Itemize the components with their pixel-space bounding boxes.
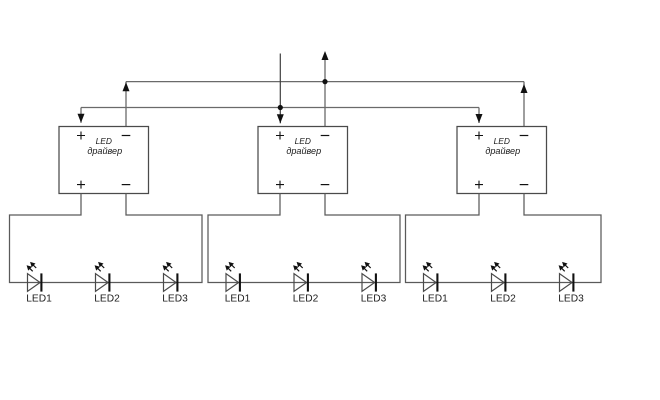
wire: positive bus drop into driver 1 "+" (arrow down): [78, 108, 85, 123]
LED3 of string 1: [163, 262, 178, 292]
driver 1 pin + (bottom output): [77, 181, 85, 189]
LED2 of string 3: [491, 262, 506, 292]
wire: driver 3 "-" riser to negative bus (arrow up): [521, 82, 528, 127]
driver 3 pin + (top input): [475, 132, 483, 140]
svg-text:LED1: LED1: [26, 294, 52, 305]
wire: +V feed from power source down to driver 2 "+" (arrow down): [277, 54, 284, 124]
LED driver module 3 (box): [457, 127, 547, 194]
driver 1 pin - (bottom output): [122, 184, 131, 186]
driver 3 pin + (bottom output): [475, 181, 483, 189]
wire: LED string 1 loop (driver 1 output to series LEDs): [10, 194, 203, 283]
junction: +V feed on positive bus: [278, 105, 283, 110]
driver 2 pin - (bottom output): [321, 184, 330, 186]
LED1 of string 3: [423, 262, 438, 292]
LED1 of string 1: [27, 262, 42, 292]
svg-text:LED3: LED3: [558, 294, 584, 305]
wire: positive supply bus (lower horizontal): [81, 107, 479, 109]
svg-text:LED2: LED2: [490, 294, 516, 305]
svg-text:драйвер: драйвер: [286, 146, 321, 156]
driver 2 pin + (bottom output): [276, 181, 284, 189]
svg-text:LED3: LED3: [361, 294, 387, 305]
wire: LED string 2 loop (driver 2 output to series LEDs): [208, 194, 400, 283]
driver 1 pin + (top input): [77, 132, 85, 140]
svg-text:LED1: LED1: [225, 294, 251, 305]
svg-text:драйвер: драйвер: [87, 146, 122, 156]
driver 3 pin - (top input): [520, 135, 529, 137]
svg-text:LED3: LED3: [162, 294, 188, 305]
wire: -V return from driver 2 "-" up to power source (arrow up): [322, 51, 329, 127]
LED driver module 1 (box): [59, 127, 149, 194]
driver 2 pin - (top input): [321, 135, 330, 137]
LED2 of string 1: [95, 262, 110, 292]
wire: negative supply bus (upper horizontal): [126, 81, 524, 83]
LED1 of string 2: [225, 262, 240, 292]
svg-text:LED: LED: [96, 136, 112, 146]
svg-text:LED2: LED2: [94, 294, 120, 305]
LED3 of string 2: [361, 262, 376, 292]
LED driver module 2 (box): [258, 127, 348, 194]
wire: LED string 3 loop (driver 3 output to series LEDs): [406, 194, 602, 283]
svg-text:LED2: LED2: [293, 294, 319, 305]
LED3 of string 3: [559, 262, 574, 292]
wire: positive bus drop into driver 3 "+" (arrow down): [476, 108, 483, 124]
driver 1 pin - (top input): [122, 135, 131, 137]
LED2 of string 2: [293, 262, 308, 292]
svg-text:LED: LED: [295, 136, 311, 146]
svg-text:LED: LED: [494, 136, 510, 146]
svg-text:LED1: LED1: [422, 294, 448, 305]
driver 3 pin - (bottom output): [520, 184, 529, 186]
svg-text:драйвер: драйвер: [485, 146, 520, 156]
wire: driver 1 "-" riser to negative bus (arrow up): [123, 82, 130, 127]
junction: return wire on negative bus: [322, 79, 327, 84]
driver 2 pin + (top input): [276, 132, 284, 140]
